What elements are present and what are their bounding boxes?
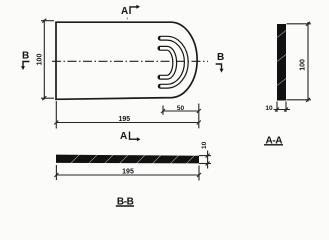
svg-text:10: 10 — [265, 105, 273, 112]
dimension 195 (below main view) — [54, 101, 201, 129]
dimension 195 (below section B-B) — [54, 165, 201, 181]
section A-A title — [264, 135, 283, 146]
cutting-plane mark A (top) — [121, 5, 140, 20]
dimension 100 (right of section A-A) — [287, 22, 312, 102]
cutting-plane mark B (right) — [216, 52, 225, 73]
svg-text:B: B — [217, 52, 224, 63]
svg-text:A: A — [121, 6, 128, 17]
svg-text:195: 195 — [118, 116, 130, 123]
section B-B title — [116, 197, 134, 208]
dimension 50 — [161, 106, 201, 115]
outer slot — [160, 38, 186, 86]
svg-text:195: 195 — [122, 169, 134, 176]
svg-text:A: A — [120, 131, 127, 142]
inner slot — [160, 48, 175, 77]
section B-B hatched body — [56, 154, 199, 164]
plate outline (main view) — [56, 22, 197, 99]
svg-text:50: 50 — [177, 105, 185, 112]
svg-text:100: 100 — [37, 54, 44, 66]
dimension 10 (right of section B-B) — [199, 151, 211, 169]
cutting-plane mark A (bottom) — [120, 131, 141, 142]
section A-A hatched body — [277, 24, 287, 101]
svg-text:100: 100 — [299, 59, 306, 71]
svg-text:B: B — [22, 50, 29, 61]
centerline (cutting plane B-B) — [52, 60, 208, 62]
dimension 100 (left of main view) — [41, 19, 54, 101]
svg-text:10: 10 — [201, 141, 208, 149]
dimension 10 (below section A-A) — [274, 102, 291, 113]
cutting-plane mark B (left) — [21, 50, 29, 70]
